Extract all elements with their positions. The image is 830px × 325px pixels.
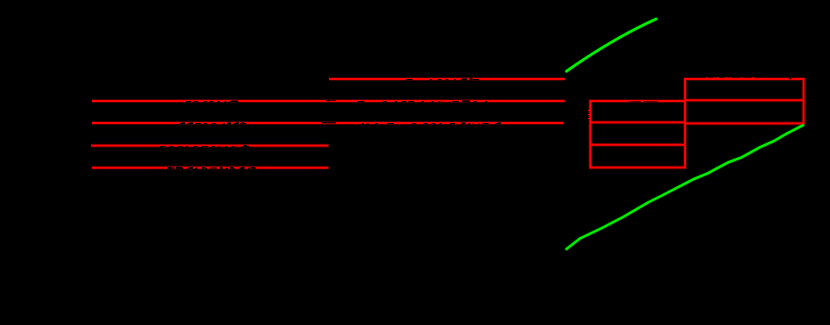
svg-text:F = 2 201 5 MHZ 2: F = 2 201 5 MHZ 2 bbox=[386, 120, 501, 135]
svg-text:F = 4 26 MHZ: F = 4 26 MHZ bbox=[405, 76, 480, 91]
svg-text:5 2 S1 2 F 11 MHZ: 5 2 S1 2 F 11 MHZ bbox=[169, 164, 257, 179]
svg-text:41 1: 41 1 bbox=[358, 120, 380, 135]
svg-text:5 2 S1 2 F 21 MHZ: 5 2 S1 2 F 21 MHZ bbox=[159, 143, 250, 158]
svg-text:5S 63 M14: 5S 63 M14 bbox=[185, 98, 240, 113]
svg-text:F = 3 157 1 MHZ 26 1: F = 3 157 1 MHZ 26 1 bbox=[357, 98, 490, 113]
svg-text:6 2 P3 2 441 7: 6 2 P3 2 441 7 bbox=[177, 120, 247, 135]
